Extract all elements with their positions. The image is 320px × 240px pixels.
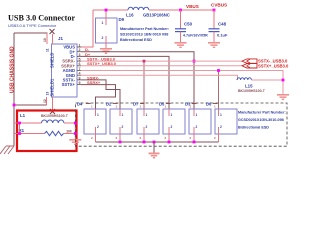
svg-text:2: 2 (165, 136, 167, 140)
svg-text:11: 11 (46, 48, 50, 52)
svg-text:D7: D7 (133, 102, 139, 107)
connector pin names (61, 45, 75, 88)
svg-text:USB3.0 A TYPE Connector: USB3.0 A TYPE Connector (8, 23, 57, 28)
net label D+ (85, 52, 91, 57)
ESD array part text (238, 111, 286, 130)
wire: GND row to L15 (81, 75, 238, 80)
svg-text:2: 2 (146, 125, 148, 129)
svg-text:Manufacturer Part Number:: Manufacturer Part Number: (120, 27, 169, 31)
wire: chassis to pin10 (14, 33, 47, 44)
svg-text:J1: J1 (58, 36, 63, 41)
highlight red box (17, 111, 77, 152)
svg-text:2: 2 (97, 125, 99, 129)
svg-text:SSTX+_USB3.0: SSTX+_USB3.0 (87, 61, 117, 66)
svg-text:SSTX+_USB3.0: SSTX+_USB3.0 (258, 63, 289, 68)
wire: L15 to ground vertical (251, 79, 284, 82)
connector right pin numbers (79, 43, 81, 85)
ground in red box (69, 139, 81, 145)
wire: bus to ground (153, 142, 155, 153)
net label SSTX-_USB3.0 (87, 57, 116, 62)
svg-text:USB CHASSIS GND: USB CHASSIS GND (10, 46, 16, 93)
ESD pin number ticks (91, 105, 216, 141)
ESD diode D5 (159, 102, 185, 143)
svg-text:2: 2 (122, 125, 124, 129)
wire: D- row to D5 (81, 56, 169, 109)
svg-text:D9: D9 (119, 17, 125, 22)
svg-text:1: 1 (79, 43, 81, 47)
svg-text:2: 2 (91, 136, 93, 140)
connector J1 (43, 36, 77, 103)
title (8, 14, 75, 29)
svg-text:0.1uF: 0.1uF (217, 33, 228, 38)
ESD array dashed box (76, 103, 288, 146)
pin stubs bottom (pin 12, 13) (47, 97, 53, 111)
svg-text:L16: L16 (126, 13, 134, 18)
svg-text:2: 2 (171, 125, 173, 129)
wire: SSRX- row (net SSTX-_USB3.0) to arrow, tap D7 (81, 60, 242, 109)
ground for C50 (175, 42, 187, 48)
svg-text:1: 1 (91, 105, 93, 109)
svg-text:2: 2 (79, 48, 81, 52)
inductor L15 (237, 78, 266, 93)
svg-text:10: 10 (43, 38, 47, 42)
svg-text:2: 2 (116, 136, 118, 140)
svg-text:3: 3 (79, 53, 81, 57)
svg-text:1: 1 (102, 21, 104, 25)
wire: D+ row to D3 (81, 52, 195, 109)
svg-text:D6: D6 (206, 102, 212, 107)
ground for D9 (100, 48, 112, 54)
svg-text:1M: 1M (66, 129, 72, 134)
svg-text:1: 1 (122, 113, 124, 117)
wire: L1/R1 left tie (18, 122, 21, 135)
svg-text:GCSD0201X1GN-3010-098: GCSD0201X1GN-3010-098 (238, 118, 284, 122)
wire: SSRX+ row (net SSTX+_USB3.0) to arrow (81, 65, 242, 67)
svg-text:8: 8 (79, 76, 81, 80)
svg-text:9: 9 (79, 81, 81, 85)
svg-text:D4: D4 (77, 102, 83, 107)
svg-text:1: 1 (140, 105, 142, 109)
svg-text:1: 1 (171, 113, 173, 117)
ESD diode D4 (77, 102, 106, 143)
no-connect X on pin 13 (50, 109, 55, 114)
no-connect X on pin 11 (50, 29, 55, 34)
svg-text:BK1005HS100-T: BK1005HS100-T (238, 89, 266, 93)
svg-text:VBUS: VBUS (186, 4, 199, 9)
wire: SSTX- row staircase to D2 (81, 80, 120, 109)
svg-text:7: 7 (79, 67, 81, 71)
ground for C48 (208, 42, 220, 48)
chassis ground symbol (0, 143, 14, 154)
svg-text:2: 2 (140, 136, 142, 140)
svg-text:2: 2 (220, 125, 222, 129)
svg-text:1: 1 (196, 113, 198, 117)
svg-text:D2: D2 (106, 102, 112, 107)
wire: chassis gnd vertical (13, 33, 15, 145)
svg-text:1: 1 (214, 105, 216, 109)
svg-text:CVBUS: CVBUS (211, 3, 227, 8)
svg-text:1: 1 (190, 105, 192, 109)
svg-text:2: 2 (190, 136, 192, 140)
svg-text:USB 3.0 Connector: USB 3.0 Connector (8, 14, 75, 23)
node: USB CHASSIS GND label (10, 46, 16, 93)
svg-text:2: 2 (196, 125, 198, 129)
svg-text:4: 4 (79, 72, 81, 76)
net label SSRX- (87, 75, 100, 80)
svg-text:C48: C48 (218, 22, 227, 27)
svg-text:1: 1 (116, 105, 118, 109)
svg-text:2: 2 (102, 36, 104, 40)
svg-text:1: 1 (165, 105, 167, 109)
ESD diode D9 (96, 9, 125, 48)
svg-text:6: 6 (79, 62, 81, 66)
svg-text:4.7uF/16V/X5R: 4.7uF/16V/X5R (183, 34, 208, 38)
inductor L16 (126, 7, 170, 17)
svg-text:GB13P106NC: GB13P106NC (143, 13, 170, 18)
wire: AGND row to right ground, tap D6 (81, 69, 283, 109)
svg-text:1: 1 (97, 113, 99, 117)
ESD diode D7 (133, 102, 159, 143)
net arrow SSTX-_USB3.0 (242, 59, 288, 64)
ESD diode D6 (206, 102, 237, 143)
ground below dashed box (149, 153, 160, 159)
svg-text:Manufacturer Part Number:: Manufacturer Part Number: (238, 111, 286, 115)
resistor R1 (14, 128, 75, 136)
svg-text:5: 5 (79, 58, 81, 62)
svg-text:1: 1 (220, 113, 222, 117)
ESD diode D3 (185, 102, 211, 143)
capacitor C50 (175, 10, 208, 42)
wire: L1/R1 right tie to ground (74, 122, 77, 139)
node VBUS (179, 4, 199, 11)
svg-text:SHIELD1: SHIELD1 (50, 78, 55, 96)
svg-text:13: 13 (46, 92, 50, 96)
ESD diode D2 (106, 102, 132, 143)
net label SSRX+ (87, 80, 101, 85)
svg-text:SSTX+: SSTX+ (62, 82, 76, 87)
capacitor C48 (209, 10, 229, 42)
connector right pin stubs (77, 47, 81, 85)
net label D- (85, 47, 90, 52)
node CVBUS (211, 3, 227, 12)
wire: pin12 to chassis net (13, 104, 47, 107)
svg-text:Bidirectional ESD: Bidirectional ESD (120, 38, 152, 42)
svg-text:SHIELD: SHIELD (50, 53, 55, 68)
net arrow SSTX+_USB3.0 (242, 63, 289, 68)
svg-text:1: 1 (146, 113, 148, 117)
svg-text:L15: L15 (245, 84, 253, 89)
svg-text:L1: L1 (20, 113, 26, 118)
wire: ESD common bus (96, 141, 219, 144)
svg-text:Bidirectional ESD: Bidirectional ESD (238, 126, 269, 130)
inductor L1 (14, 113, 75, 123)
svg-text:2: 2 (214, 136, 216, 140)
ground right (277, 94, 289, 100)
svg-text:SSRX+: SSRX+ (87, 80, 101, 85)
svg-text:BK1005HS100-T: BK1005HS100-T (41, 114, 69, 118)
wire: SSTX+ row staircase to D4 (81, 85, 116, 109)
pin stubs top (pin 10, 11) (47, 33, 53, 44)
wire: VBUS pin to top rail (81, 10, 93, 47)
svg-text:SD103C2013 1BN 0010 098: SD103C2013 1BN 0010 098 (120, 33, 168, 37)
D9 part text (120, 27, 169, 42)
net label SSTX+_USB3.0 (87, 61, 117, 66)
svg-text:C50: C50 (184, 22, 193, 27)
wire: VBUS top rail (93, 9, 214, 11)
